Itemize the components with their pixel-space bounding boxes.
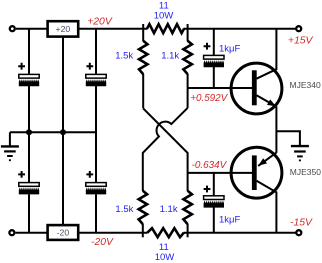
resistor R3 1.1k top	[183, 24, 192, 108]
svg-text:1.1k: 1.1k	[161, 51, 179, 62]
capacitor C1	[18, 63, 39, 86]
resistor R5 11 ohm bottom (body)	[147, 228, 184, 237]
transistor Q2 MJE350	[231, 147, 282, 232]
resistor R4 1.5k bottom	[139, 191, 148, 238]
wire to right ground	[276, 131, 300, 146]
svg-text:+0.592V: +0.592V	[190, 93, 228, 104]
terminal bottom-right	[296, 230, 301, 235]
svg-text:1.1k: 1.1k	[160, 204, 178, 215]
svg-text:-15V: -15V	[290, 218, 313, 229]
terminal bottom-left	[9, 230, 14, 235]
junction dot at (63,132)	[60, 129, 66, 135]
ground (right)	[291, 146, 309, 160]
resistor R1 11 ohm top (body)	[147, 24, 184, 33]
capacitor C3	[18, 171, 39, 194]
junction dot at (29,132)	[26, 129, 32, 135]
wire vertical x=96 between caps	[95, 86, 97, 183]
svg-text:1kμF: 1kμF	[219, 43, 241, 54]
capacitor C2	[86, 63, 106, 86]
svg-text:-20V: -20V	[91, 237, 114, 248]
svg-text:-0.634V: -0.634V	[192, 160, 228, 171]
transistor Q1 MJE340	[231, 29, 282, 114]
svg-text:1.5k: 1.5k	[115, 51, 133, 62]
node -0.634V wire to Q2 base	[188, 172, 253, 174]
wire diagonal B with hop (upper node to bottom 1.5k)	[143, 108, 188, 191]
wire bottom rail right segment	[184, 232, 296, 234]
wire top rail right segment	[184, 28, 296, 30]
wire bottom rail left segment	[16, 232, 148, 234]
regulator U2 -20 box	[48, 225, 79, 240]
wire diagonal A (top 1.5k to lower node)	[143, 108, 187, 173]
wire vertical x=29 between caps	[28, 86, 30, 183]
wire vertical x=96 cap4 to bottom rail	[95, 194, 97, 232]
svg-text:10W: 10W	[155, 252, 175, 263]
resistor R6 1.1k bottom	[183, 173, 192, 237]
resistor R2 1.5k top	[139, 24, 148, 108]
svg-text:1.5k: 1.5k	[115, 204, 133, 215]
wire vertical x=29 top rail to middle rail	[28, 29, 30, 75]
capacitor C5 1kuF top	[204, 29, 224, 88]
capacitor C4	[86, 171, 106, 194]
svg-text:+15V: +15V	[288, 36, 314, 47]
svg-text:MJE350: MJE350	[290, 167, 321, 177]
terminal top-left	[10, 26, 15, 31]
svg-text:+20V: +20V	[87, 16, 113, 27]
terminal top-right	[296, 26, 301, 31]
node +0.592V wire to Q1 base	[188, 87, 253, 89]
wire middle ground rail	[10, 131, 96, 133]
svg-text:MJE340: MJE340	[290, 80, 321, 90]
regulator U1 +20 box	[48, 21, 79, 36]
wire emitter junction vertical	[275, 106, 277, 153]
svg-text:10W: 10W	[154, 10, 174, 21]
capacitor C6 1kuF bottom	[204, 173, 224, 233]
svg-text:+20: +20	[56, 24, 71, 34]
wire vertical x=63 box to box	[62, 37, 64, 226]
ground (left)	[1, 132, 19, 160]
wire vertical x=96 top rail down	[95, 29, 97, 75]
wire top rail left segment	[16, 28, 148, 30]
wire vertical x=29 cap3 to bottom rail	[28, 194, 30, 232]
svg-text:-20: -20	[57, 228, 70, 238]
svg-text:1kμF: 1kμF	[219, 214, 241, 225]
